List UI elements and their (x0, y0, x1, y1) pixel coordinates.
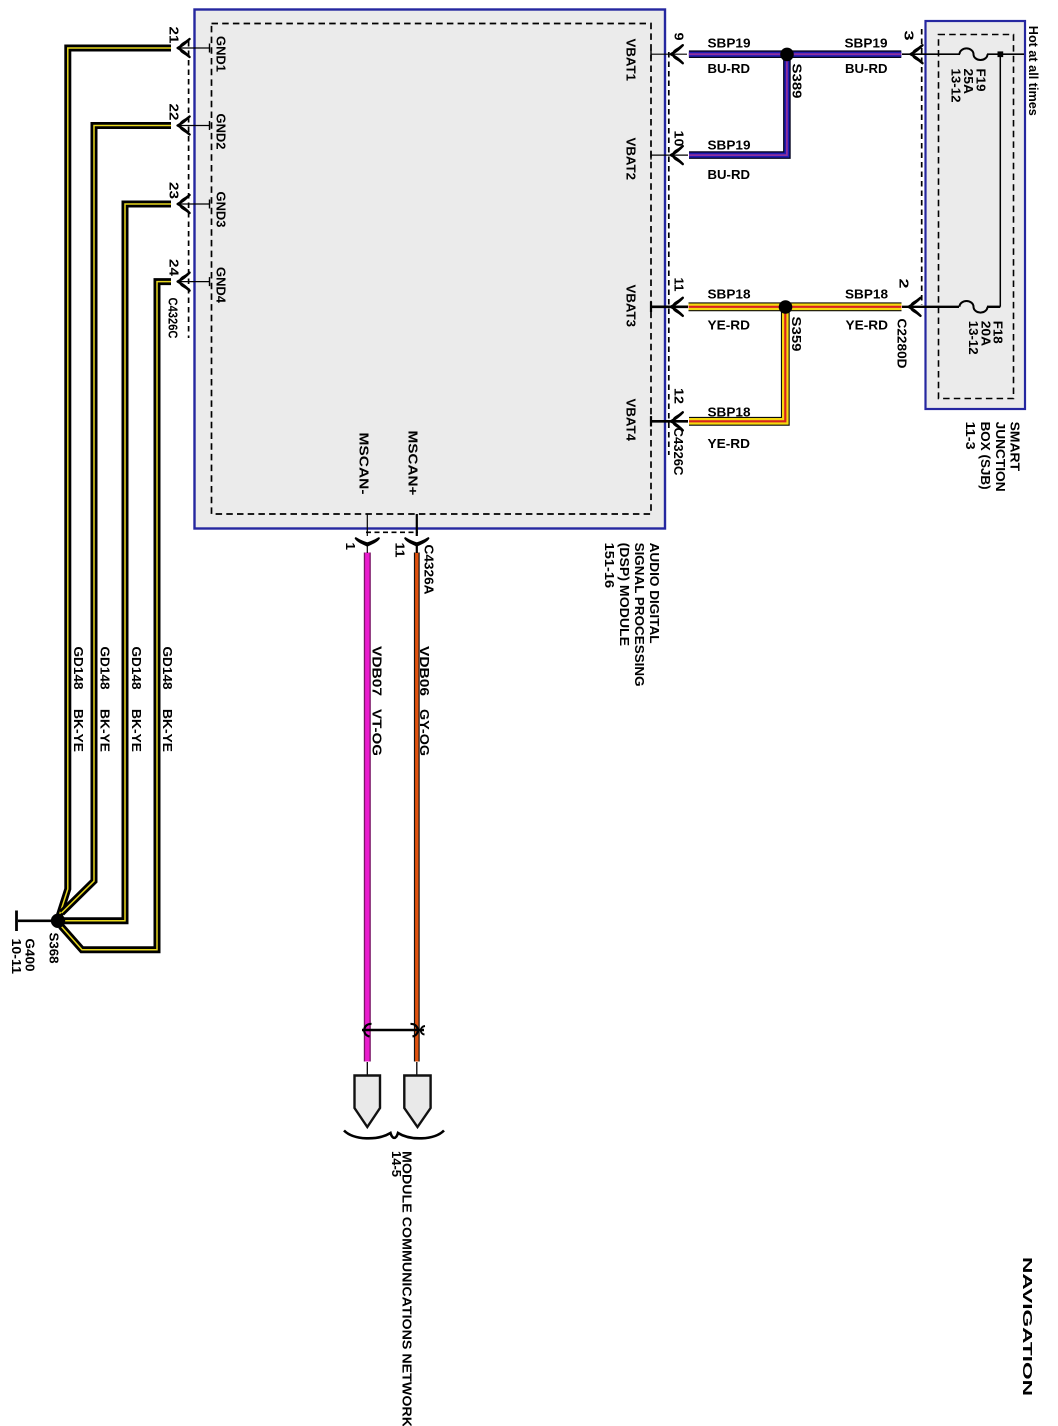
svg-text:SBP19: SBP19 (708, 138, 751, 153)
pin 1 MSCAN- lead line (366, 514, 368, 553)
splice S389 (780, 48, 794, 62)
riser from junction to F18 (999, 56, 1001, 307)
svg-text:MSCAN+: MSCAN+ (406, 431, 421, 496)
F19 to hot bus line (987, 53, 1024, 55)
svg-text:BK-YE: BK-YE (98, 709, 113, 752)
pin 24 arrow (178, 273, 190, 291)
svg-text:GND2: GND2 (214, 114, 229, 150)
DSP module box (195, 10, 666, 529)
svg-text:S359: S359 (789, 317, 804, 352)
pin 23 lead line (178, 200, 210, 209)
svg-text:GD148: GD148 (129, 647, 144, 690)
svg-text:GND1: GND1 (214, 36, 229, 72)
wire SBP18 YE-RD branch S359 to pin12 (689, 310, 785, 421)
fuse F18 (960, 301, 988, 313)
junction dot (hot feed) (998, 51, 1004, 57)
svg-text:BK-YE: BK-YE (129, 709, 144, 752)
svg-text:VBAT3: VBAT3 (624, 285, 639, 328)
wire SBP19 BU-RD pin9 to SJB pin3 (689, 50, 901, 58)
svg-text:SMART: SMART (1008, 422, 1023, 472)
SJB box (926, 21, 1026, 409)
svg-text:YE-RD: YE-RD (846, 318, 889, 333)
SJB pin 3 arrow (911, 45, 923, 63)
svg-text:YE-RD: YE-RD (708, 318, 751, 333)
ground G400 lead wire (18, 919, 51, 922)
wire GD148 BK-YE from GND1 pin 21 to S368 (59, 48, 171, 917)
svg-text:SBP18: SBP18 (708, 405, 751, 420)
svg-text:VDB07: VDB07 (370, 646, 385, 696)
svg-text:13-12: 13-12 (966, 321, 981, 355)
connector C4326C dashed line (left, pins 21-24) (188, 41, 190, 338)
svg-text:C4326C: C4326C (671, 428, 686, 477)
MSCAN+ pin 11 arrow (405, 538, 428, 545)
twisted pair symbol (362, 1024, 425, 1037)
svg-text:SBP19: SBP19 (845, 35, 888, 50)
wire VDB07 VT-OG (MSCAN-) (364, 553, 371, 1062)
svg-text:1: 1 (343, 543, 358, 551)
connector C4326C dashed line (right, pins 9-12) (668, 52, 670, 455)
svg-text:9: 9 (672, 33, 687, 41)
svg-text:22: 22 (167, 104, 182, 121)
svg-text:10: 10 (672, 131, 687, 147)
svg-text:BOX (SJB): BOX (SJB) (978, 422, 993, 490)
pin 21 arrow (178, 39, 190, 57)
svg-text:SBP18: SBP18 (845, 287, 888, 302)
splice S359 (779, 300, 793, 314)
pin 11 arrow (671, 298, 683, 316)
connector terminal (left) (355, 1076, 381, 1128)
svg-text:24: 24 (167, 259, 182, 277)
ground G400 symbol (15, 911, 18, 932)
wire SBP19 BU-RD branch S389 to pin10 (689, 57, 787, 155)
svg-text:BU-RD: BU-RD (708, 167, 751, 182)
svg-text:NAVIGATION: NAVIGATION (1020, 1257, 1035, 1396)
svg-text:VBAT1: VBAT1 (624, 39, 639, 82)
pin 12 arrow (671, 412, 683, 430)
pin 11 MSCAN+ lead line (416, 514, 418, 553)
svg-text:YE-RD: YE-RD (708, 436, 751, 451)
SJB pin 2 lead line (902, 306, 959, 308)
wire SBP18 YE-RD pin11 to SJB pin2 (689, 302, 902, 311)
splice S368 (51, 914, 65, 928)
svg-text:JUNCTION: JUNCTION (993, 422, 1008, 492)
MSCAN- pin 1 arrow (356, 538, 379, 545)
SJB inner dashed border (939, 35, 1014, 399)
svg-text:SIGNAL PROCESSING: SIGNAL PROCESSING (632, 543, 647, 687)
svg-text:GD148: GD148 (71, 647, 86, 690)
wire VDB06 GY-OG (MSCAN+) (414, 553, 420, 1062)
svg-text:GY-OG: GY-OG (417, 709, 432, 756)
wire GD148 BK-YE from GND2 pin 22 to S368 (62, 126, 172, 914)
svg-text:AUDIO DIGITAL: AUDIO DIGITAL (647, 543, 662, 644)
svg-text:VDB06: VDB06 (417, 646, 432, 696)
svg-text:SBP19: SBP19 (708, 35, 751, 50)
pin 22 lead line (178, 121, 210, 130)
svg-text:BK-YE: BK-YE (160, 709, 175, 752)
pin 23 arrow (178, 195, 190, 213)
svg-text:SBP18: SBP18 (708, 287, 751, 302)
svg-text:13-12: 13-12 (949, 69, 964, 103)
pin 10 arrow (671, 146, 683, 164)
svg-text:C2280D: C2280D (895, 319, 910, 369)
svg-text:11-3: 11-3 (963, 422, 978, 450)
svg-text:C4326A: C4326A (422, 545, 437, 596)
svg-text:10-11: 10-11 (9, 939, 24, 975)
svg-text:12: 12 (672, 388, 687, 404)
svg-text:11: 11 (672, 278, 687, 292)
svg-text:VT-OG: VT-OG (370, 709, 385, 756)
lead to left connector terminal (366, 1062, 368, 1076)
svg-text:2: 2 (897, 279, 912, 289)
pin 21 lead line (178, 44, 210, 53)
svg-text:3: 3 (902, 31, 917, 41)
connector terminal (right) (404, 1076, 430, 1128)
svg-text:21: 21 (167, 27, 182, 44)
svg-text:GD148: GD148 (160, 647, 175, 690)
svg-text:BU-RD: BU-RD (708, 61, 751, 76)
svg-text:Hot at all times: Hot at all times (1026, 26, 1041, 116)
svg-text:C4326C: C4326C (166, 298, 181, 340)
pin 9 arrow (671, 45, 683, 63)
svg-text:151-16: 151-16 (602, 543, 617, 589)
SJB pin 2 arrow (909, 298, 921, 316)
svg-text:GND4: GND4 (214, 267, 229, 304)
svg-text:MODULE COMMUNICATIONS NETWORK: MODULE COMMUNICATIONS NETWORK (399, 1151, 414, 1426)
svg-text:11: 11 (393, 543, 408, 558)
fuse F19 (960, 48, 988, 60)
brace (module communications network) (344, 1131, 444, 1139)
pin 12 lead line (651, 416, 688, 426)
svg-text:GND3: GND3 (214, 192, 229, 228)
lead to right connector terminal (416, 1062, 418, 1076)
svg-text:BK-YE: BK-YE (71, 709, 86, 752)
svg-text:S368: S368 (47, 933, 62, 964)
connector C4326A dashed line (bottom, pins 1,11) (366, 531, 418, 533)
DSP module inner dashed border (212, 24, 652, 515)
pin 9 lead line (651, 50, 687, 59)
F18 to riser line (987, 306, 1000, 308)
wire GD148 BK-YE from GND3 pin 23 to S368 (64, 204, 171, 921)
svg-text:23: 23 (167, 182, 182, 199)
connector C2280D dashed line (SJB pins 3,2) (921, 29, 923, 305)
svg-text:(DSP) MODULE: (DSP) MODULE (617, 543, 632, 647)
svg-text:GD148: GD148 (98, 647, 113, 690)
SJB pin 3 lead line (902, 53, 960, 55)
wire GD148 BK-YE from GND4 pin 24 to S368 (61, 282, 171, 950)
pin 22 arrow (178, 117, 190, 135)
pin 24 lead line (178, 277, 210, 286)
pin 11 lead line (651, 302, 688, 312)
pin 10 lead line (651, 151, 688, 160)
svg-text:VBAT4: VBAT4 (624, 399, 639, 442)
svg-text:MSCAN-: MSCAN- (357, 433, 372, 495)
svg-text:BU-RD: BU-RD (845, 61, 888, 76)
svg-text:VBAT2: VBAT2 (624, 138, 639, 181)
svg-text:S389: S389 (790, 64, 805, 99)
